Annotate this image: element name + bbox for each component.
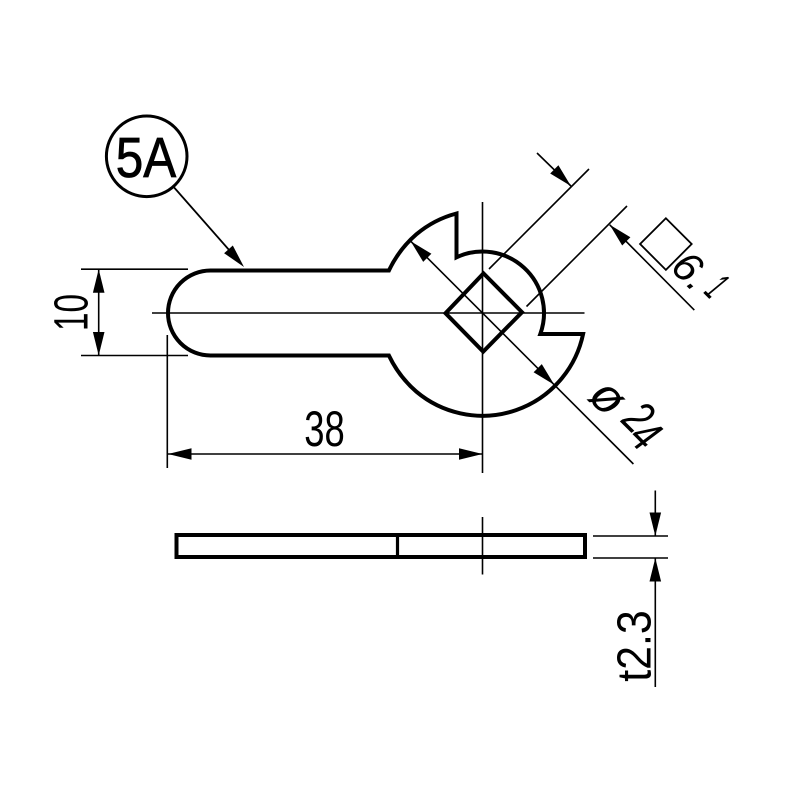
dim t2.3: dimension line upper (654, 491, 656, 537)
dim dia 24: dimension line (45 deg through head center) (411, 241, 634, 464)
horizontal centerline (152, 312, 585, 314)
dim 38: dimension line (168, 453, 483, 455)
dim square 6.1: dimension line lower segment (610, 225, 695, 310)
svg-text:5A: 5A (116, 126, 177, 190)
svg-text:38: 38 (304, 401, 345, 457)
plan view: part outline (lever plate with round head, two notches, rounded arm) (168, 214, 583, 416)
dim square 6.1: arrowhead lower (points up-left) (610, 225, 631, 246)
dim square 6.1: arrowhead upper (points down-right) (550, 165, 571, 186)
dim square 6.1: square symbol (640, 218, 692, 270)
dim dia 24: arrowhead upper-left (411, 241, 432, 262)
dim square 6.1: extension line 2 (from square right corner) (527, 206, 628, 307)
square hole (6.1 square rotated 45 deg) (446, 273, 523, 351)
dim 10: arrowhead up (93, 269, 105, 293)
balloon leader line (174, 187, 240, 262)
svg-text:t2.3: t2.3 (608, 610, 661, 682)
dim square 6.1: dimension line upper segment (537, 153, 571, 186)
side view: plate outline (177, 535, 586, 557)
dim t2.3: arrowhead down (650, 513, 662, 537)
dim 10: extension line top (81, 268, 188, 270)
dim dia 24: value label "Ø24" (578, 363, 676, 461)
dim square 6.1: extension line 1 (from square top corner) (489, 169, 589, 269)
dim 10: dimension line (98, 269, 100, 355)
vertical centerline of head (482, 202, 484, 473)
side view: division line (arm/head boundary) (396, 535, 399, 557)
dim 38: extension line left (166, 335, 168, 468)
dim t2.3: arrowhead up (650, 558, 662, 582)
dim square 6.1: value label "6.1" (663, 237, 738, 312)
dim 10: arrowhead down (93, 332, 105, 356)
dim dia 24: arrowhead lower-right (534, 364, 555, 385)
balloon leader arrowhead (224, 246, 244, 268)
dim t2.3: extension line top (593, 535, 668, 537)
balloon 5A circle (106, 116, 187, 197)
dim t2.3: dimension line lower (654, 558, 656, 687)
dim 38: arrowhead right (459, 448, 483, 460)
side view: vertical centerline (482, 517, 484, 575)
svg-text:10: 10 (46, 294, 99, 331)
dim 38: arrowhead left (168, 448, 192, 460)
dim t2.3: extension line bottom (593, 557, 668, 559)
dim 10: extension line bottom (81, 355, 188, 357)
